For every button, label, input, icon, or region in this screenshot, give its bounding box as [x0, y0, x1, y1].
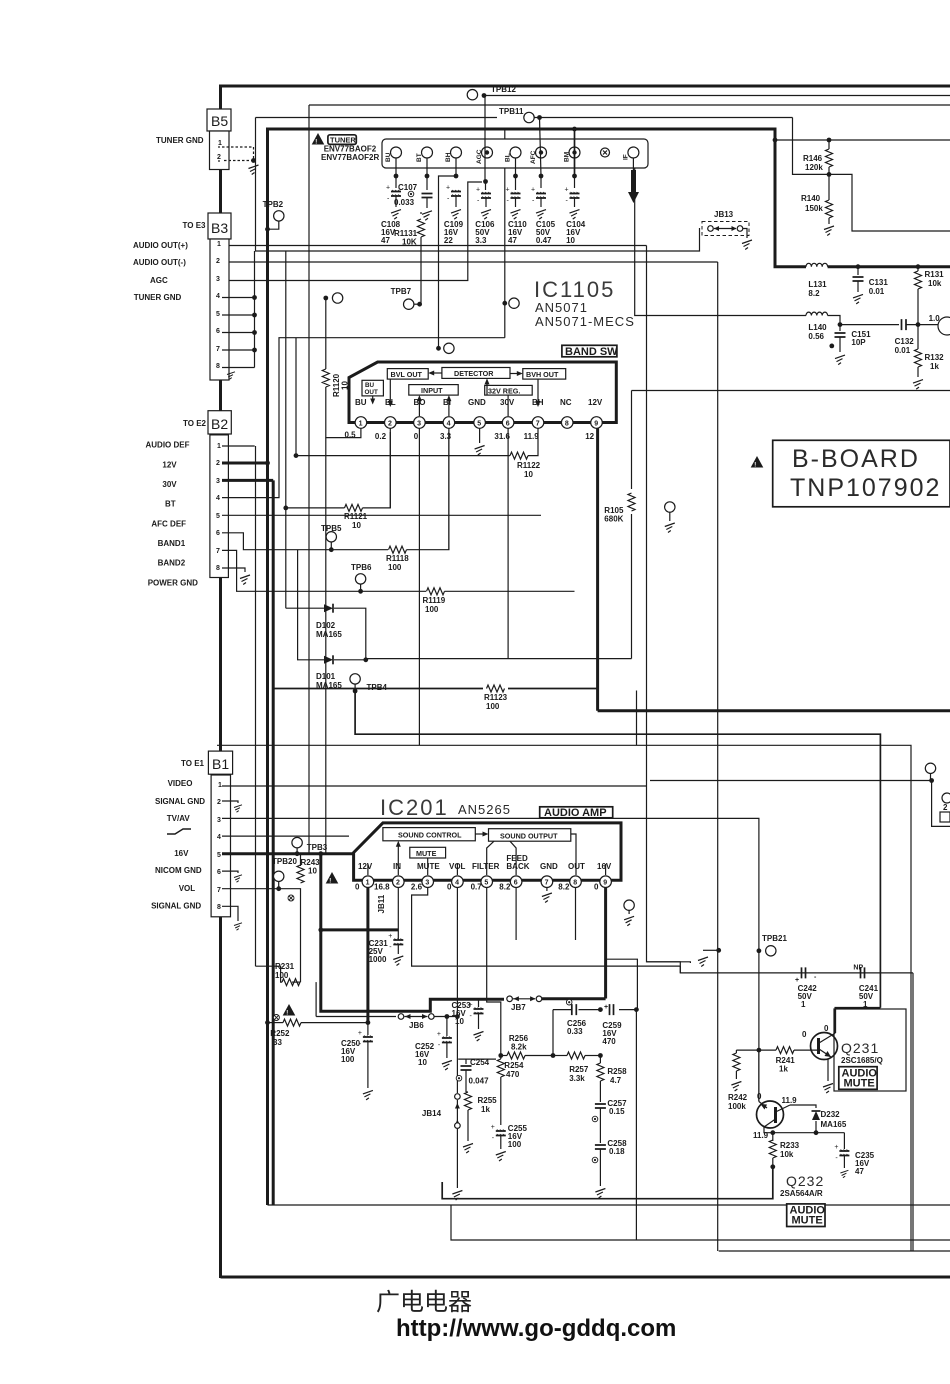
- svg-text:TPB4: TPB4: [367, 683, 388, 692]
- IC201 block outline: [354, 823, 621, 880]
- svg-text:2.6: 2.6: [411, 883, 423, 892]
- box BU OUT: [362, 380, 383, 396]
- ground B2 pin8: [240, 575, 250, 585]
- svg-text:3.3k: 3.3k: [569, 1074, 585, 1083]
- wire: 16V drop x=320.8 thick: [319, 854, 322, 930]
- svg-text:B-BOARD: B-BOARD: [792, 445, 920, 473]
- svg-text:0.47: 0.47: [536, 236, 552, 245]
- IC1105 block outline: [349, 362, 616, 423]
- svg-text:IC201: IC201: [380, 795, 449, 820]
- wire: pin3 stub: [418, 428, 420, 745]
- wire: audio out(+) y=245.5: [222, 245, 647, 247]
- resistor R254: [500, 1056, 502, 1060]
- svg-text:3: 3: [217, 817, 221, 824]
- box DETECTOR: [442, 368, 510, 379]
- svg-text:R233: R233: [780, 1141, 800, 1150]
- wire: step to audio line: [680, 966, 913, 973]
- capacitor C254 + R255: [458, 1058, 496, 1060]
- svg-text:8.2: 8.2: [558, 883, 570, 892]
- capacitor C256: [566, 999, 572, 1005]
- wire: pin6 stub: [507, 428, 509, 658]
- wire: thick vertical x=267.5: [266, 129, 269, 1205]
- box BVH OUT: [523, 369, 566, 380]
- wire: B1 pin1 video: [222, 785, 647, 787]
- wire: BH route down: [439, 176, 457, 348]
- wire: R105 column: [631, 391, 633, 490]
- svg-text:5: 5: [477, 421, 481, 428]
- tuner pins: [391, 147, 639, 158]
- svg-text:10: 10: [566, 236, 575, 245]
- svg-text:AUDIO AMP: AUDIO AMP: [544, 807, 607, 819]
- svg-text:9: 9: [594, 421, 598, 428]
- capacitor C104: [565, 187, 580, 205]
- svg-text:BO: BO: [414, 398, 426, 407]
- svg-text:GND: GND: [540, 862, 558, 871]
- svg-text:4: 4: [217, 834, 221, 841]
- svg-text:JB14: JB14: [422, 1109, 442, 1118]
- svg-text:TPB21: TPB21: [762, 934, 787, 943]
- svg-text:1k: 1k: [930, 362, 939, 371]
- svg-text:16V: 16V: [597, 862, 612, 871]
- svg-text:470: 470: [506, 1070, 520, 1079]
- wire: B2 pin6 BAND1 / R1118 row: [222, 533, 388, 550]
- box 32V REG: [485, 385, 533, 395]
- svg-text:AN5071: AN5071: [535, 300, 588, 315]
- svg-text:NP: NP: [853, 965, 863, 972]
- capacitor C108: [386, 185, 401, 203]
- wire: pin6 stub: [515, 888, 517, 941]
- svg-text:3.3: 3.3: [475, 236, 487, 245]
- svg-text:AN5071-MECS: AN5071-MECS: [535, 314, 635, 329]
- AUDIO MUTE box Q231: [839, 1067, 877, 1090]
- svg-text:10: 10: [524, 470, 533, 479]
- svg-text:5: 5: [216, 513, 220, 520]
- svg-text:BT: BT: [416, 153, 423, 162]
- svg-text:BAND1: BAND1: [158, 539, 186, 548]
- box INPUT: [409, 385, 458, 396]
- wire: AGC route from B3 pin3: [222, 182, 482, 281]
- svg-text:MUTE: MUTE: [416, 849, 437, 858]
- svg-text:2SA564A/R: 2SA564A/R: [780, 1189, 823, 1198]
- wire: long vertical x=255.5: [255, 446, 257, 966]
- test point right of IC201: [624, 900, 634, 910]
- svg-text:8.2: 8.2: [808, 289, 820, 298]
- wire: 16V snake to JB7: [321, 930, 504, 1011]
- svg-text:AFC: AFC: [530, 150, 537, 164]
- capacitor C131: [856, 264, 861, 269]
- resistor R1131: [420, 212, 422, 214]
- resistor R105: [628, 493, 635, 511]
- svg-text:6: 6: [216, 328, 220, 335]
- svg-text:GND: GND: [468, 398, 486, 407]
- capacitor C253: [478, 999, 480, 1007]
- svg-text:JB6: JB6: [409, 1021, 424, 1030]
- wire: B2 pin7 BAND2 / R1119 row: [222, 550, 426, 591]
- svg-text:2SC1685/Q: 2SC1685/Q: [841, 1056, 883, 1065]
- svg-text:C107: C107: [398, 183, 418, 192]
- box SOUND OUTPUT: [489, 829, 571, 842]
- svg-text:BAND2: BAND2: [158, 559, 186, 568]
- svg-text:AUDIO OUT(-): AUDIO OUT(-): [133, 258, 186, 267]
- svg-text:AUDIO OUT(+): AUDIO OUT(+): [133, 241, 188, 250]
- svg-text:1: 1: [217, 443, 221, 450]
- svg-text:1000: 1000: [369, 955, 387, 964]
- resistor R258: [599, 1056, 601, 1064]
- svg-text:R1122: R1122: [517, 461, 541, 470]
- svg-text:0: 0: [824, 1024, 829, 1033]
- wire: tuner gnd to JB13 y=251: [256, 118, 700, 252]
- svg-text:470: 470: [602, 1037, 616, 1046]
- svg-text:SOUND CONTROL: SOUND CONTROL: [398, 831, 462, 840]
- wire: TPB12 net horizontal: [484, 95, 950, 97]
- svg-text:BH: BH: [532, 398, 544, 407]
- test point TPB4: [350, 674, 360, 684]
- AUDIO MUTE box Q232: [787, 1204, 825, 1227]
- svg-text:6: 6: [514, 880, 518, 887]
- svg-text:3: 3: [425, 880, 429, 887]
- wire: Q232 bottom row: [764, 1127, 844, 1133]
- inductor L131: [806, 263, 828, 266]
- svg-text:100: 100: [275, 971, 289, 980]
- svg-text:BAND SW: BAND SW: [565, 346, 618, 358]
- svg-text:TPB7: TPB7: [391, 287, 412, 296]
- svg-text:R254: R254: [504, 1061, 524, 1070]
- svg-text:B5: B5: [211, 113, 228, 129]
- svg-text:+: +: [604, 1004, 608, 1011]
- resistor R146: [828, 140, 830, 149]
- svg-text:AN5265: AN5265: [458, 802, 511, 817]
- wire: vertical x=309: [308, 105, 310, 854]
- svg-text:10: 10: [455, 1017, 464, 1026]
- svg-text:0: 0: [594, 883, 599, 892]
- svg-text:30V: 30V: [500, 398, 515, 407]
- wire: B2 pin1 audio def: [222, 445, 255, 447]
- svg-text:0.2: 0.2: [375, 432, 387, 441]
- capacitor C231: [388, 933, 403, 951]
- resistor R231: [282, 979, 300, 986]
- svg-text:11.9: 11.9: [524, 432, 540, 441]
- svg-text:10k: 10k: [928, 279, 942, 288]
- capacitor C109: [446, 185, 461, 203]
- svg-text:7: 7: [216, 548, 220, 555]
- svg-text:R132: R132: [925, 353, 945, 362]
- wire: B2 pin2 12V: [222, 462, 268, 465]
- capacitor C252: [446, 1017, 448, 1037]
- svg-text:100: 100: [486, 702, 500, 711]
- resistor R1122: [510, 452, 528, 459]
- pin values: [355, 883, 599, 892]
- wire: B2 pin8 power gnd: [222, 568, 245, 572]
- wire: 30V drop from rail: [504, 129, 506, 338]
- svg-text:8: 8: [216, 565, 220, 572]
- svg-text:680K: 680K: [604, 515, 623, 524]
- wire: pin9 16V down: [604, 888, 607, 999]
- resistor R241: [776, 1047, 794, 1054]
- svg-text:SOUND OUTPUT: SOUND OUTPUT: [500, 832, 558, 841]
- wire: gnd stub row: [689, 961, 691, 963]
- wire: tuner-gnd line y=117.5: [256, 117, 498, 119]
- svg-text:TUNER: TUNER: [330, 136, 356, 145]
- svg-text:TO E1: TO E1: [181, 759, 205, 768]
- svg-text:SIGNAL GND: SIGNAL GND: [151, 902, 201, 911]
- capacitor C107: [422, 194, 433, 198]
- svg-text:5: 5: [484, 880, 488, 887]
- svg-text:C254: C254: [470, 1058, 490, 1067]
- svg-text:TPB20: TPB20: [272, 857, 297, 866]
- svg-text:VIDEO: VIDEO: [168, 779, 193, 788]
- AUDIO AMP box: [540, 807, 613, 818]
- svg-text:0: 0: [802, 1030, 807, 1039]
- wire: vertical x=646.5 audio-out(+): [647, 246, 681, 973]
- svg-text:R242: R242: [728, 1093, 748, 1102]
- svg-text:0.56: 0.56: [808, 332, 824, 341]
- svg-text:1: 1: [366, 880, 370, 887]
- svg-text:2: 2: [388, 421, 392, 428]
- diode D232: [790, 1105, 816, 1108]
- svg-text:TNP107902: TNP107902: [790, 474, 941, 502]
- svg-text:0: 0: [757, 1092, 762, 1101]
- wire: R233 to thick bottom: [442, 1167, 773, 1199]
- svg-text:IF: IF: [622, 154, 629, 160]
- svg-text:8.2: 8.2: [499, 883, 511, 892]
- svg-text:R257: R257: [569, 1065, 589, 1074]
- box around Q231 text: [834, 1009, 906, 1091]
- wire: B1 pin5 16V thick: [222, 852, 355, 855]
- wire: pin8 stub: [575, 888, 577, 941]
- svg-text:4: 4: [455, 880, 459, 887]
- svg-text:MA165: MA165: [821, 1120, 847, 1129]
- svg-text:7: 7: [217, 887, 221, 894]
- svg-text:0.047: 0.047: [469, 1077, 490, 1086]
- svg-text:4: 4: [216, 495, 220, 502]
- test point near IC1105: [502, 301, 507, 306]
- svg-text:2: 2: [216, 258, 220, 265]
- svg-text:OUT: OUT: [365, 389, 378, 396]
- svg-text:MUTE: MUTE: [417, 862, 440, 871]
- svg-text:0.7: 0.7: [471, 883, 483, 892]
- svg-text:MUTE: MUTE: [792, 1215, 823, 1227]
- svg-text:BU: BU: [365, 382, 375, 389]
- svg-text:R1123: R1123: [484, 693, 508, 702]
- svg-text:2: 2: [943, 803, 948, 812]
- svg-text:B1: B1: [212, 756, 229, 772]
- svg-text:NICOM GND: NICOM GND: [155, 866, 202, 875]
- wire: 16V to C259 column: [606, 959, 638, 1009]
- wire: y=140 row: [775, 139, 950, 141]
- ground B5: [251, 158, 256, 163]
- resistor R257: [567, 1052, 585, 1059]
- wire: thick 12V pin9 column: [596, 428, 599, 710]
- svg-text:TPB11: TPB11: [499, 107, 524, 116]
- wire: B1 pin4: [222, 835, 349, 837]
- warning triangle tuner: [312, 133, 325, 146]
- wire: D101/R105 row y=658.6: [366, 658, 632, 660]
- wire: collector feed row: [835, 1007, 880, 1009]
- svg-text:BVL OUT: BVL OUT: [391, 370, 423, 379]
- svg-text:7: 7: [536, 421, 540, 428]
- svg-text:6: 6: [216, 530, 220, 537]
- svg-text:MUTE: MUTE: [844, 1078, 875, 1090]
- svg-text:TPB12: TPB12: [491, 85, 516, 94]
- jumper JB14: [456, 1017, 458, 1094]
- capacitor C255: [491, 1124, 506, 1142]
- svg-text:47: 47: [508, 236, 517, 245]
- svg-text:JB13: JB13: [714, 210, 734, 219]
- test point mid: [665, 502, 675, 512]
- svg-text:TO E3: TO E3: [183, 221, 207, 230]
- svg-text:2: 2: [217, 799, 221, 806]
- svg-text:12V: 12V: [588, 398, 603, 407]
- svg-text:10: 10: [418, 1058, 427, 1067]
- capacitor C105: [531, 187, 546, 205]
- resistor R256: [507, 1052, 525, 1059]
- svg-text:0.15: 0.15: [609, 1107, 625, 1116]
- wire: pin5 to R254 node: [487, 888, 501, 1056]
- svg-text:R1119: R1119: [423, 596, 446, 605]
- svg-text:R1118: R1118: [386, 554, 409, 563]
- svg-text:100: 100: [388, 563, 402, 572]
- capacitor C258: [595, 1145, 606, 1149]
- wire: pin3 route down: [412, 888, 681, 967]
- svg-text:R258: R258: [607, 1067, 627, 1076]
- svg-text:ENV77BAOF2R: ENV77BAOF2R: [321, 153, 379, 162]
- svg-text:9: 9: [603, 880, 607, 887]
- wires: cap columns: [395, 158, 397, 188]
- wire: inner bottom line y=1205: [268, 1204, 950, 1206]
- svg-text:8: 8: [217, 904, 221, 911]
- warning triangle: [283, 1004, 296, 1017]
- svg-text:R1121: R1121: [344, 512, 368, 521]
- svg-text:BI: BI: [443, 398, 451, 407]
- wire: pin1 12V down: [366, 888, 369, 1023]
- svg-text:100: 100: [341, 1055, 355, 1064]
- svg-text:6: 6: [506, 421, 510, 428]
- wire: B2 pin5 AFC DEF: [222, 514, 541, 516]
- svg-text:10: 10: [341, 381, 350, 390]
- ground pin7: [546, 888, 548, 892]
- svg-text:0: 0: [414, 432, 419, 441]
- wire: audio out(-) y=262: [222, 261, 718, 263]
- svg-text:32V REG.: 32V REG.: [488, 386, 520, 395]
- svg-text:C132: C132: [895, 337, 915, 346]
- wire: TPB11 drop to R146 node: [793, 118, 830, 175]
- arrows/stubs to pins: [397, 845, 399, 875]
- svg-text:10: 10: [352, 521, 361, 530]
- capacitor C110: [506, 187, 521, 205]
- IC1105 pins: [355, 417, 602, 429]
- wire: IF arrow down: [632, 158, 634, 200]
- wire: vertical x=717.7 audio-out(-): [717, 262, 719, 1251]
- svg-text:1: 1: [218, 140, 222, 147]
- svg-text:TPB2: TPB2: [263, 200, 284, 209]
- svg-text:R255: R255: [478, 1096, 498, 1105]
- wire: Q231 base: [794, 1049, 819, 1051]
- svg-text:TPB6: TPB6: [351, 563, 372, 572]
- box SOUND CONTROL: [383, 828, 475, 841]
- wire: TPB12 to AGC pin: [484, 96, 486, 182]
- svg-text:FILTER: FILTER: [472, 862, 500, 871]
- svg-text:AFC DEF: AFC DEF: [151, 520, 186, 529]
- box MUTE: [410, 847, 446, 858]
- wire: left thick border: [219, 86, 222, 1278]
- svg-text:R231: R231: [275, 962, 295, 971]
- wire: AGC cap feed: [485, 182, 487, 191]
- svg-text:120k: 120k: [805, 163, 823, 172]
- svg-text:150k: 150k: [805, 204, 823, 213]
- svg-text:C131: C131: [869, 278, 889, 287]
- partial component right edge: [942, 793, 950, 803]
- svg-text:BL: BL: [385, 398, 396, 407]
- svg-text:3.3: 3.3: [440, 432, 452, 441]
- wire: thick vertical x=273.2 (30V): [272, 480, 275, 1205]
- wire: B2 pin4 BT: [222, 338, 505, 498]
- ground video: [698, 957, 708, 967]
- capacitor C242: [802, 967, 806, 978]
- svg-text:33: 33: [273, 1038, 282, 1047]
- svg-text:L140: L140: [808, 323, 827, 332]
- svg-text:JB7: JB7: [511, 1003, 526, 1012]
- svg-text:1: 1: [801, 1000, 806, 1009]
- svg-text:11.9: 11.9: [782, 1096, 798, 1105]
- svg-text:2: 2: [396, 880, 400, 887]
- svg-text:8: 8: [565, 421, 569, 428]
- wire: thick row y=710.7: [598, 709, 950, 712]
- wire: IF line to L140: [635, 158, 806, 316]
- svg-text:100: 100: [425, 605, 439, 614]
- svg-text:IN: IN: [393, 862, 401, 871]
- svg-text:VOL: VOL: [179, 884, 196, 893]
- wire: thick 12V rail top: [268, 129, 807, 267]
- svg-text:JB11: JB11: [377, 894, 386, 913]
- wire: BM from rail: [574, 129, 576, 176]
- svg-text:DETECTOR: DETECTOR: [454, 369, 494, 378]
- svg-text:AGC: AGC: [150, 276, 168, 285]
- wire: pin7 stub to R1122: [528, 428, 538, 455]
- svg-text:3: 3: [417, 421, 421, 428]
- wire/ground: B1 pin6: [222, 871, 238, 873]
- wire: bottom thick border: [221, 1276, 950, 1279]
- inductor L140: [806, 312, 828, 315]
- svg-text:4: 4: [447, 421, 451, 428]
- wire: pin2 with C231: [397, 888, 399, 940]
- jumper JB7: [507, 996, 513, 1002]
- pin labels: [358, 854, 612, 871]
- svg-text:1k: 1k: [779, 1065, 788, 1074]
- wire: inner bottom line y=1240: [451, 1205, 950, 1240]
- BAND SW box: [562, 345, 617, 357]
- wire: bottom line y=1251: [719, 1250, 950, 1252]
- svg-text:0: 0: [355, 883, 360, 892]
- wire: R1120 top to test point: [323, 296, 328, 301]
- wire: JB6 row: [316, 1016, 396, 1018]
- svg-text:R146: R146: [803, 154, 823, 163]
- svg-text:100k: 100k: [728, 1102, 746, 1111]
- wire: pin4 stub: [448, 428, 450, 549]
- svg-text:2: 2: [216, 460, 220, 467]
- svg-text:INPUT: INPUT: [421, 386, 443, 395]
- svg-text:10: 10: [308, 867, 317, 876]
- resistor R1120: [325, 298, 327, 369]
- wire: line y=390.5: [632, 390, 950, 392]
- svg-text:12: 12: [585, 432, 594, 441]
- wire: B3 pins 4-8 gnd bus: [222, 297, 255, 299]
- svg-text:5: 5: [217, 852, 221, 859]
- wire: pin4 long: [456, 888, 458, 1017]
- wire: top thick rail: [219, 85, 950, 88]
- connector B5: [207, 109, 231, 131]
- svg-text:30V: 30V: [162, 480, 177, 489]
- wire: C241 node down x=913: [912, 973, 914, 1251]
